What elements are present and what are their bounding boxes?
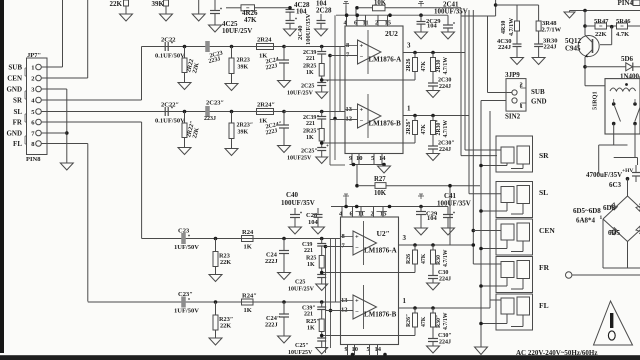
svg-text:47K: 47K xyxy=(421,124,427,135)
svg-text:47K: 47K xyxy=(421,253,427,264)
svg-text:1UF/50V: 1UF/50V xyxy=(174,244,199,251)
svg-text:SL: SL xyxy=(13,108,22,116)
svg-text:1K: 1K xyxy=(244,307,252,314)
svg-text:FR: FR xyxy=(13,119,23,127)
svg-text:4.7/1W: 4.7/1W xyxy=(443,249,449,267)
svg-text:100UF/35V: 100UF/35V xyxy=(281,199,315,207)
svg-text:12: 12 xyxy=(346,116,353,123)
svg-text:2C25″: 2C25″ xyxy=(301,149,318,155)
svg-text:224J: 224J xyxy=(439,147,451,153)
svg-text:22K: 22K xyxy=(595,31,607,38)
svg-text:10UF25V: 10UF25V xyxy=(287,156,312,162)
svg-text:R27: R27 xyxy=(374,176,386,183)
svg-text:39K: 39K xyxy=(152,0,165,8)
svg-text:10UF/25V: 10UF/25V xyxy=(287,91,314,97)
svg-text:JP7": JP7" xyxy=(27,52,41,59)
svg-text:222J: 222J xyxy=(265,322,278,329)
svg-text:2C25: 2C25 xyxy=(301,84,314,90)
svg-text:10UF25V: 10UF25V xyxy=(288,350,313,356)
svg-text:2.7/1W: 2.7/1W xyxy=(542,27,562,34)
svg-text:3: 3 xyxy=(407,42,411,50)
svg-text:LM1876-B: LM1876-B xyxy=(364,311,397,319)
svg-text:4R30: 4R30 xyxy=(501,21,507,34)
svg-text:10UF/25V: 10UF/25V xyxy=(222,27,252,35)
svg-text:SUB: SUB xyxy=(8,64,22,72)
svg-text:4.7/1W: 4.7/1W xyxy=(443,57,449,75)
svg-text:1: 1 xyxy=(31,65,34,72)
svg-text:100UF/35V: 100UF/35V xyxy=(305,13,312,45)
svg-text:12: 12 xyxy=(341,307,348,314)
svg-text:SIN2: SIN2 xyxy=(505,113,521,121)
svg-text:2C22″: 2C22″ xyxy=(161,102,179,109)
svg-text:2R26: 2R26 xyxy=(406,59,412,72)
svg-text:+: + xyxy=(355,234,359,241)
svg-text:2C30: 2C30 xyxy=(438,78,451,84)
svg-text:C30: C30 xyxy=(438,270,448,276)
svg-text:222J: 222J xyxy=(265,258,278,265)
svg-text:1: 1 xyxy=(407,105,411,113)
svg-text:3: 3 xyxy=(403,234,407,242)
svg-text:6D8: 6D8 xyxy=(603,204,616,212)
svg-text:2R30: 2R30 xyxy=(436,60,442,73)
svg-text:221: 221 xyxy=(306,56,315,62)
svg-text:0.1UF/50V: 0.1UF/50V xyxy=(155,118,185,125)
svg-text:CEN: CEN xyxy=(7,75,22,83)
svg-text:14: 14 xyxy=(379,155,386,162)
svg-text:224J: 224J xyxy=(439,84,451,90)
svg-text:FR: FR xyxy=(539,263,550,272)
svg-text:U2″: U2″ xyxy=(377,229,390,238)
svg-text:4700uF/35V: 4700uF/35V xyxy=(586,171,622,179)
svg-text:221: 221 xyxy=(306,121,315,127)
svg-text:CEN: CEN xyxy=(539,226,555,235)
svg-text:2C22: 2C22 xyxy=(161,37,175,44)
svg-text:PIN4: PIN4 xyxy=(618,0,634,7)
svg-text:SR: SR xyxy=(13,97,23,105)
svg-text:AC 220V-240V~50Hz/60Hz: AC 220V-240V~50Hz/60Hz xyxy=(516,349,597,357)
svg-text:2C28: 2C28 xyxy=(316,7,332,15)
svg-text:1K: 1K xyxy=(307,262,315,268)
svg-text:C40: C40 xyxy=(286,191,299,199)
svg-text:+: + xyxy=(355,298,359,305)
svg-text:4.7/1W: 4.7/1W xyxy=(509,18,515,36)
svg-text:224J: 224J xyxy=(544,44,558,51)
svg-text:6D5~6D8: 6D5~6D8 xyxy=(573,207,601,215)
svg-text:39K: 39K xyxy=(238,65,249,71)
svg-text:2R30″: 2R30″ xyxy=(436,119,442,135)
svg-text:−: − xyxy=(360,54,364,61)
svg-text:R25: R25 xyxy=(306,256,316,262)
svg-text:GND: GND xyxy=(531,98,547,106)
svg-text:47K: 47K xyxy=(244,16,257,24)
svg-text:−: − xyxy=(355,245,359,252)
svg-text:224J: 224J xyxy=(439,277,451,283)
svg-text:0.1UF/50V: 0.1UF/50V xyxy=(155,53,185,60)
svg-text:GND: GND xyxy=(6,86,22,94)
svg-text:−: − xyxy=(355,309,359,316)
svg-text:5D6: 5D6 xyxy=(621,55,634,63)
svg-text:2U2: 2U2 xyxy=(385,29,398,38)
svg-text:1UF/50V: 1UF/50V xyxy=(174,308,199,315)
svg-text:47K: 47K xyxy=(421,316,427,327)
svg-text:10K: 10K xyxy=(374,190,387,197)
svg-text:4.7/1W: 4.7/1W xyxy=(443,312,449,330)
svg-text:22K: 22K xyxy=(220,259,231,266)
svg-text:104: 104 xyxy=(308,219,319,226)
svg-text:1: 1 xyxy=(600,215,603,221)
svg-text:LM1876-A: LM1876-A xyxy=(369,56,402,64)
svg-text:−: − xyxy=(360,118,364,125)
svg-text:2R24: 2R24 xyxy=(257,37,272,44)
svg-text:+HV: +HV xyxy=(622,168,633,174)
svg-text:SR: SR xyxy=(539,151,549,160)
svg-text:SL: SL xyxy=(539,188,548,197)
svg-text:6D5: 6D5 xyxy=(608,229,621,237)
svg-text:C25: C25 xyxy=(295,280,305,286)
svg-text:2: 2 xyxy=(520,82,523,89)
svg-text:LM1876-A: LM1876-A xyxy=(364,247,397,255)
svg-text:1K: 1K xyxy=(306,135,314,141)
svg-text:4.7K: 4.7K xyxy=(616,31,629,38)
svg-text:22K: 22K xyxy=(220,323,231,330)
svg-text:SUB: SUB xyxy=(531,88,545,96)
svg-text:+: + xyxy=(360,107,364,114)
svg-text:R30″: R30″ xyxy=(436,315,442,328)
svg-text:FL: FL xyxy=(539,301,549,310)
svg-text:2: 2 xyxy=(31,76,34,83)
svg-text:4.7/1W: 4.7/1W xyxy=(443,120,449,138)
svg-text:5R47: 5R47 xyxy=(594,18,609,25)
svg-text:224J: 224J xyxy=(498,44,512,51)
svg-text:221: 221 xyxy=(304,312,313,318)
svg-text:1K: 1K xyxy=(244,244,252,251)
svg-text:C945: C945 xyxy=(565,45,581,53)
svg-text:5R46: 5R46 xyxy=(616,18,631,25)
svg-text:2C23″: 2C23″ xyxy=(206,100,224,107)
svg-text:1: 1 xyxy=(520,103,523,110)
svg-text:2R25: 2R25 xyxy=(303,64,316,70)
svg-text:2C30″: 2C30″ xyxy=(438,141,455,147)
svg-text:2C40: 2C40 xyxy=(297,26,304,40)
svg-text:1N4004: 1N4004 xyxy=(620,73,640,81)
svg-text:104: 104 xyxy=(427,22,438,29)
svg-text:R24″: R24″ xyxy=(242,293,257,300)
svg-text:2R26″: 2R26″ xyxy=(406,118,412,134)
svg-text:C23: C23 xyxy=(178,228,190,235)
svg-text:C25″: C25″ xyxy=(295,343,309,349)
svg-text:+: + xyxy=(360,43,364,50)
svg-text:100UF/35V: 100UF/35V xyxy=(434,8,468,16)
svg-text:C28: C28 xyxy=(306,212,318,219)
svg-text:104: 104 xyxy=(427,215,438,222)
svg-text:LM1876-B: LM1876-B xyxy=(369,120,402,128)
svg-text:14: 14 xyxy=(375,346,382,353)
svg-text:100UF/35V: 100UF/35V xyxy=(437,200,471,208)
svg-text:2R23: 2R23 xyxy=(237,58,250,64)
svg-text:2R25″: 2R25″ xyxy=(303,129,320,135)
svg-text:224J: 224J xyxy=(439,340,451,346)
svg-text:10UF/25V: 10UF/25V xyxy=(288,287,315,293)
svg-text:R26″: R26″ xyxy=(406,314,412,327)
svg-text:3JP9: 3JP9 xyxy=(505,71,520,79)
svg-text:6C3: 6C3 xyxy=(609,181,622,189)
svg-text:R24: R24 xyxy=(242,229,254,236)
svg-text:FL: FL xyxy=(13,140,22,148)
svg-text:6A8*4: 6A8*4 xyxy=(576,217,596,225)
svg-text:1K: 1K xyxy=(306,70,314,76)
svg-text:2R23″: 2R23″ xyxy=(237,123,254,129)
svg-text:2R24″: 2R24″ xyxy=(257,102,275,109)
svg-text:51RQ1: 51RQ1 xyxy=(592,91,599,110)
svg-text:R26: R26 xyxy=(406,254,412,264)
svg-text:221: 221 xyxy=(304,248,313,254)
svg-text:1: 1 xyxy=(403,297,407,305)
svg-text:PIN8: PIN8 xyxy=(26,156,41,163)
svg-text:C23″: C23″ xyxy=(178,291,193,298)
svg-text:R25″: R25″ xyxy=(306,319,320,325)
svg-text:47K: 47K xyxy=(421,61,427,72)
svg-text:39K: 39K xyxy=(238,130,249,136)
svg-text:GND: GND xyxy=(6,130,22,138)
svg-text:22K: 22K xyxy=(110,0,123,8)
svg-text:R30: R30 xyxy=(436,255,442,265)
svg-text:223J: 223J xyxy=(204,116,216,122)
svg-text:1K: 1K xyxy=(307,326,315,332)
svg-text:C30″: C30″ xyxy=(438,333,452,339)
